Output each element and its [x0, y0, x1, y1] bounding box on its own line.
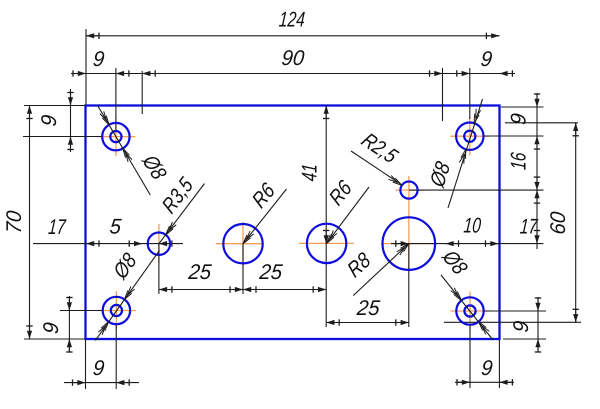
extension line R8 center to chain: [408, 244, 410, 327]
leader R6 first: [243, 178, 287, 244]
leader diameter 8 TR: [426, 99, 483, 208]
svg-text:9: 9: [510, 319, 534, 333]
extension line left of top edge: [24, 105, 85, 107]
centerlines hole TL: [96, 117, 135, 156]
svg-text:17: 17: [47, 215, 67, 239]
svg-text:17: 17: [519, 214, 539, 238]
dimension chain 9 16 17 right: [506, 93, 540, 249]
svg-text:9: 9: [480, 357, 494, 381]
extension line 60-dim top tangent: [505, 122, 578, 124]
leader R3.5: [158, 173, 205, 244]
extension line TL hole center vertical: [115, 68, 117, 130]
svg-text:R2,5: R2,5: [356, 129, 402, 168]
centerlines hole BL: [97, 291, 136, 330]
svg-text:Ø8: Ø8: [426, 158, 455, 191]
dimension 60 right: [547, 123, 579, 322]
svg-text:R6: R6: [248, 178, 280, 213]
dimension 25 chain third lower: [326, 297, 409, 326]
svg-text:9: 9: [92, 357, 106, 381]
svg-text:5: 5: [109, 215, 123, 239]
dimension 17 left and 5: [33, 215, 183, 247]
svg-text:9: 9: [507, 112, 531, 126]
svg-text:25: 25: [187, 261, 213, 285]
centerlines hole R8: [381, 176, 437, 272]
svg-text:9: 9: [38, 113, 62, 127]
extension line TR hole center horizontal: [484, 135, 544, 137]
extension line below bottom left corner: [85, 340, 87, 389]
svg-text:R6: R6: [325, 175, 357, 210]
svg-text:124: 124: [278, 7, 306, 31]
extension line TL hole center horizontal: [23, 136, 103, 138]
dimension 70 left: [3, 106, 33, 340]
svg-text:Ø8: Ø8: [109, 249, 142, 285]
dimension 41 vertical: [297, 106, 329, 244]
extension line BL hole center horizontal: [60, 310, 103, 312]
svg-text:41: 41: [297, 163, 321, 182]
leader R8: [344, 244, 409, 296]
extension line 60-dim bottom tangent: [444, 321, 581, 323]
dimension 9 bottom right vertical: [510, 297, 541, 352]
centerline horizontal hole R2.5: [396, 189, 425, 191]
centerlines hole TR: [450, 117, 489, 156]
svg-text:10: 10: [463, 213, 483, 237]
svg-text:60: 60: [547, 210, 571, 235]
svg-text:25: 25: [258, 261, 284, 285]
hole R6 second: [307, 224, 346, 263]
svg-text:16: 16: [506, 151, 530, 171]
leader diameter 8 BL: [95, 249, 159, 341]
dimension 9 bottom right horizontal: [455, 357, 514, 386]
hole BL diameter 8: [103, 297, 130, 324]
hole TR diameter 8: [456, 123, 483, 150]
extension line TR hole center vertical: [469, 68, 471, 119]
svg-text:9: 9: [40, 321, 64, 335]
dimension 9 bottom left vertical: [40, 296, 73, 352]
leader R6 second: [325, 175, 369, 243]
extension line x=107mm datum: [442, 68, 444, 121]
extension line top left corner vertical: [85, 29, 87, 105]
extension line R3.5 center to chain: [158, 244, 160, 294]
centerlines hole BR: [451, 292, 490, 331]
hole R6 first: [223, 224, 262, 263]
svg-text:25: 25: [355, 297, 381, 321]
svg-text:Ø8: Ø8: [436, 246, 471, 279]
dimension 25 chain first: [159, 261, 243, 293]
centerline horizontal hole R6 second: [299, 242, 354, 244]
plate outline 124x70: [86, 106, 500, 340]
hole R3.5: [148, 233, 170, 255]
centerline vertical hole R3.5: [158, 224, 160, 263]
dimension 90 top: [135, 47, 455, 77]
leader diameter 8 TL: [98, 106, 171, 196]
dimension 124 top: [86, 7, 499, 39]
extension line R6 first center to chain: [242, 244, 244, 294]
dimension 9 top right: [455, 48, 515, 77]
svg-text:9: 9: [480, 48, 494, 72]
extension line right of bottom edge: [503, 338, 546, 340]
dimension 25 chain second: [243, 261, 326, 293]
extension line right of top corner: [501, 106, 544, 108]
dimension 10 and 17 right: [391, 213, 544, 247]
extension line BR hole center to bottom: [469, 324, 471, 388]
extension line left of bottom edge: [24, 338, 85, 340]
extension line BL hole center to bottom: [115, 324, 117, 389]
hole R2.5: [400, 182, 417, 199]
extension line 41-dim and R6 second vertical: [325, 106, 327, 328]
dimension 9 top left: [71, 48, 135, 77]
dimension 9 top left vertical: [38, 89, 74, 152]
extension line R2.5 center horizontal: [409, 189, 544, 191]
svg-text:70: 70: [3, 209, 27, 234]
dimension 9 bottom left horizontal: [64, 357, 139, 386]
leader diameter 8 BR: [436, 246, 493, 340]
svg-text:R8: R8: [344, 248, 376, 283]
svg-text:90: 90: [280, 47, 305, 71]
hole R8: [383, 217, 436, 270]
hole BR diameter 8: [456, 297, 483, 324]
extension line x=17mm datum: [141, 71, 143, 114]
hole TL diameter 8: [102, 123, 129, 150]
extension line BR hole center horizontal: [484, 310, 546, 312]
extension line below bottom right corner: [498, 340, 500, 388]
svg-text:R3,5: R3,5: [158, 173, 198, 219]
svg-text:9: 9: [92, 48, 106, 72]
leader R2.5: [351, 129, 403, 186]
centerlines hole R6 first: [216, 222, 263, 266]
svg-text:Ø8: Ø8: [136, 151, 170, 183]
